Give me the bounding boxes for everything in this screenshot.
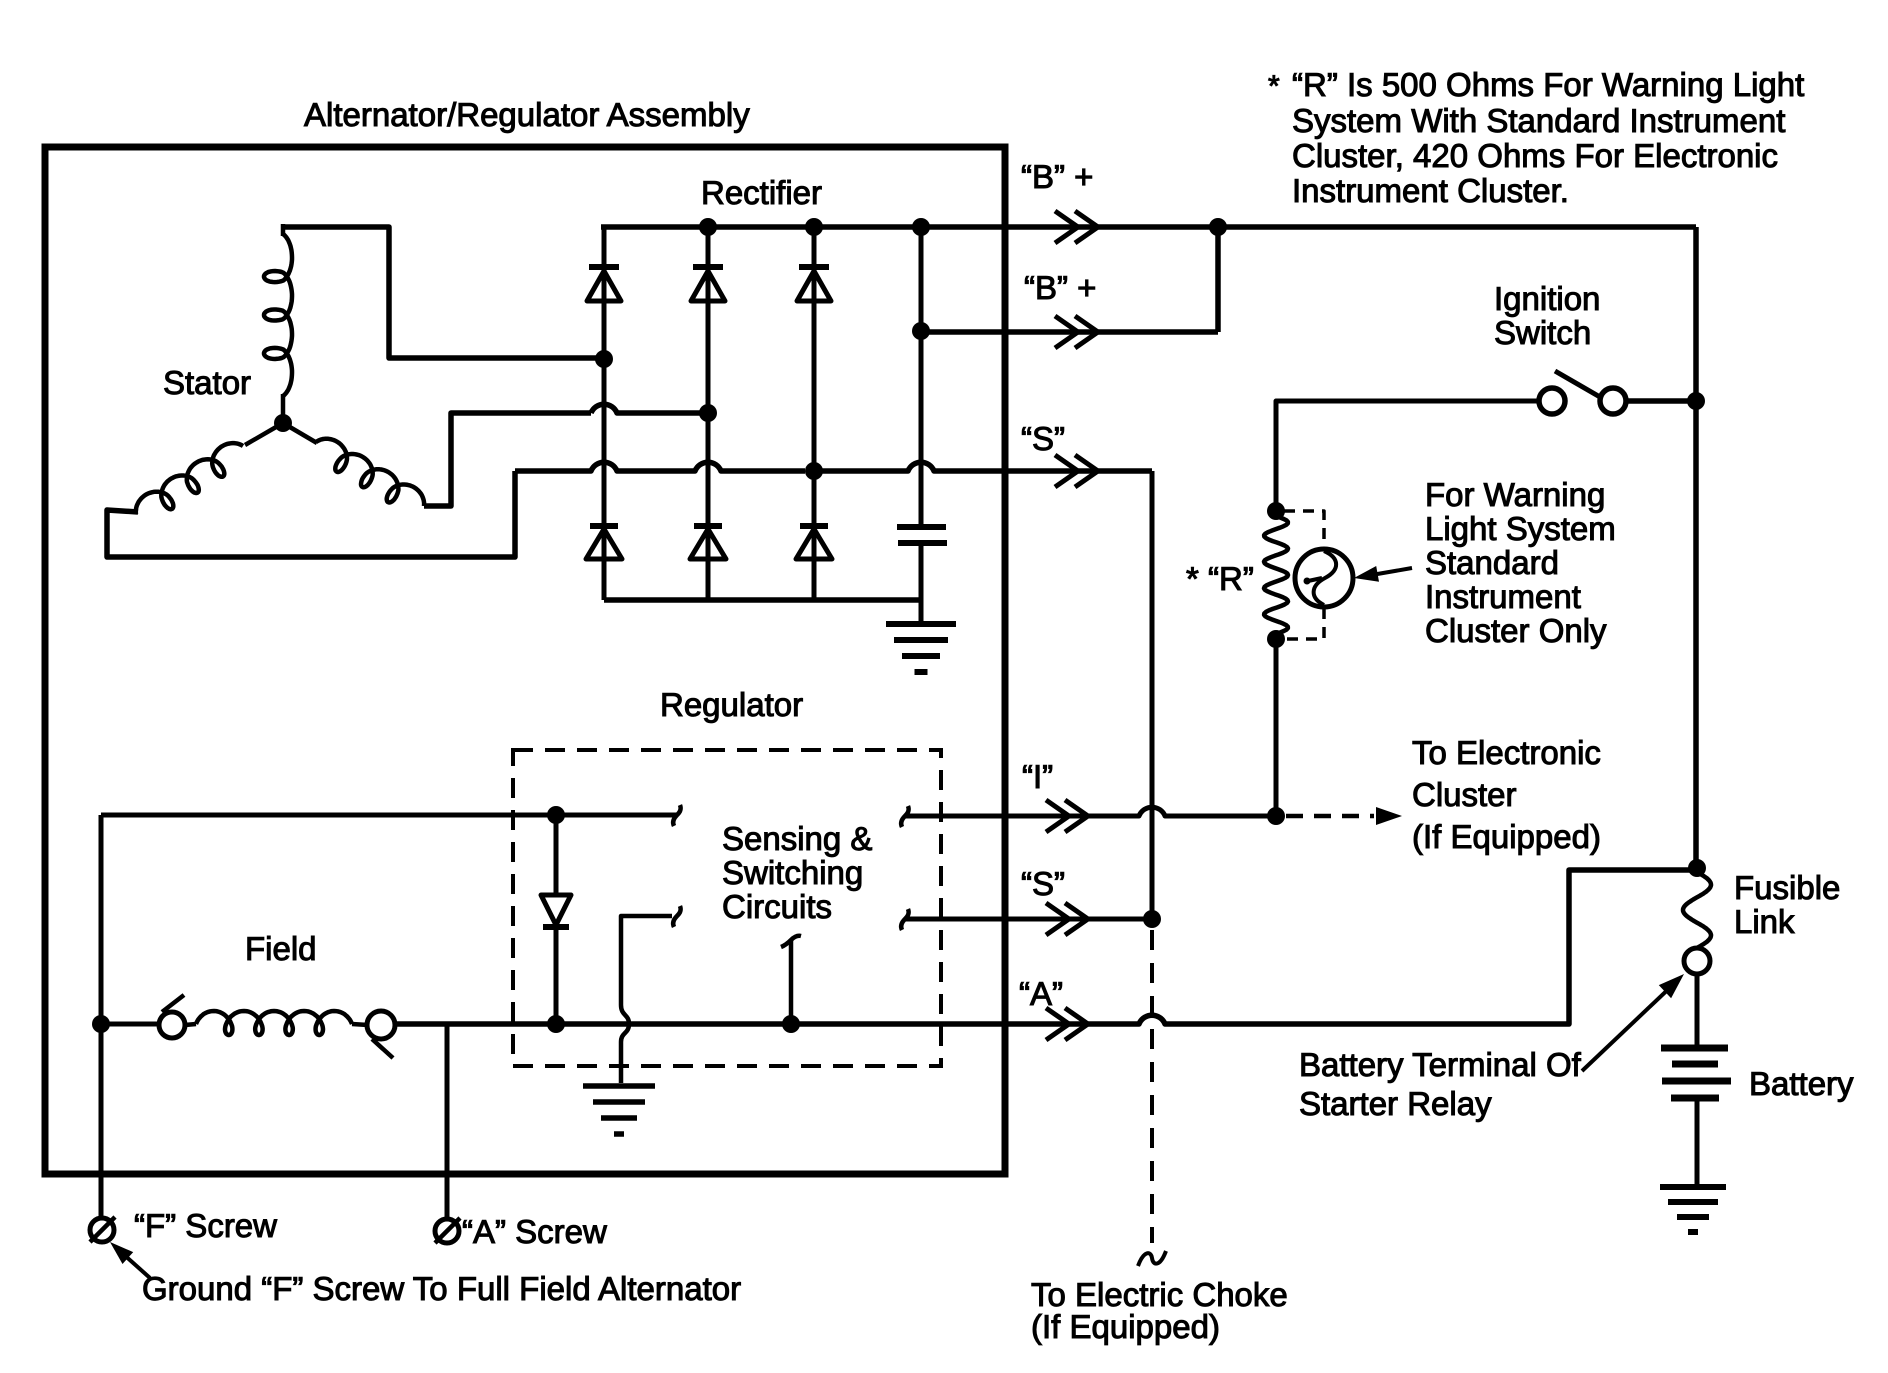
svg-text:Sensing &: Sensing & [722,820,872,857]
svg-text:Switching: Switching [722,854,863,891]
wire S with hops over diode legs [515,462,805,471]
choke wire break squiggle [1138,1251,1166,1266]
svg-text:Switch: Switch [1494,314,1591,351]
stator winding L2 (left coil) [245,423,283,445]
svg-text:Fusible: Fusible [1734,869,1840,906]
wire field to A terminal [395,1021,1005,1027]
svg-text:Cluster: Cluster [1412,776,1517,813]
svg-text:*: * [1268,70,1280,103]
svg-text:Battery: Battery [1749,1065,1854,1102]
svg-text:Field: Field [245,930,317,967]
dashed branch to warning lamp (bottom) [1284,608,1324,639]
ground (regulator) [583,1086,655,1134]
node B+ branch on capacitor leg [912,322,930,340]
node bus-leg3 [805,218,823,236]
field brush tick left [162,995,184,1012]
svg-text:“I”: “I” [1022,758,1053,795]
diode D2 (upper) [693,264,723,270]
svg-text:(If Equipped): (If Equipped) [1031,1308,1220,1345]
field brush contact right (circle) [367,1011,395,1039]
field brush contact left (circle) [159,1012,185,1038]
svg-text:“A” Screw: “A” Screw [462,1213,607,1250]
dashed wire to electric choke [1150,930,1154,1243]
diode D3 (upper) [799,264,829,270]
screw A (circle with slash) [435,1219,459,1243]
node B+ junction [1209,218,1227,236]
warning lamp filament [1314,551,1337,605]
warning lamp (circle) [1295,549,1353,607]
wire stator-mid hop over diode leg 1 [591,404,701,413]
wire F screw leg [99,815,104,1219]
node F wire to diode D7 [547,806,565,824]
wire S continues, hop over capacitor leg [814,462,1152,471]
diode D4 (lower) [590,523,618,529]
leader arrow to lamp [1360,568,1412,577]
svg-text:“B” +: “B” + [1024,269,1096,306]
ignition switch blade [1555,371,1600,397]
leader arrow to F screw [121,1252,150,1278]
node R bottom [1267,630,1285,648]
node S on diode leg 3 [805,462,823,480]
hook stub ground wire end [673,906,680,927]
wire B+ 2 riser [1215,227,1221,332]
hook stub I inside regulator [901,806,908,827]
capacitor C1 [897,524,946,530]
svg-text:Instrument: Instrument [1425,578,1581,615]
svg-text:Standard: Standard [1425,544,1559,581]
rectifier lower bus wire [604,597,921,603]
svg-text:Ground “F” Screw To Full Field: Ground “F” Screw To Full Field Alternato… [142,1270,741,1307]
svg-text:“R” Is 500 Ohms For Warning Li: “R” Is 500 Ohms For Warning Light [1292,66,1804,103]
diode D5 (lower) [694,523,722,529]
field winding coil [196,1011,352,1035]
wire I with hop over S down-leg [905,807,1276,816]
svg-text:* “R”: * “R” [1186,560,1254,597]
svg-text:Light System: Light System [1425,510,1616,547]
wire A outside box with hop over choke line [1005,870,1697,1024]
fusible link terminal (circle) [1684,948,1710,974]
terminal arrow B+ 2 [1055,316,1098,348]
regulator dashed box [513,750,941,1066]
svg-text:(If Equipped): (If Equipped) [1412,818,1601,855]
node bus-cap [912,218,930,236]
stator top lead wire [283,227,601,358]
svg-text:For Warning: For Warning [1425,476,1605,513]
svg-text:System With Standard Instrumen: System With Standard Instrument [1292,102,1785,139]
node tap stub to field wire [782,1015,800,1033]
svg-text:Circuits: Circuits [722,888,832,925]
leader arrow to battery terminal [1582,980,1678,1071]
diode D7 (regulator) [554,815,559,895]
ignition switch contact left [1539,388,1565,414]
svg-text:Cluster, 420 Ohms For Electron: Cluster, 420 Ohms For Electronic [1292,137,1778,174]
wire switch to R branch [1626,398,1696,404]
svg-text:Rectifier: Rectifier [701,174,822,211]
svg-text:“A”: “A” [1019,975,1063,1012]
svg-text:Regulator: Regulator [660,686,803,723]
node R top [1267,502,1285,520]
dashed branch to warning lamp (top) [1284,511,1324,547]
node bus-leg2 [699,218,717,236]
wire battery to ground [1695,1098,1700,1184]
wire link to battery [1695,974,1700,1045]
node stator-mid to diode leg 2 [699,404,717,422]
wire ignition feed down from B+ [1693,227,1699,868]
hook stub S inside regulator [901,909,908,930]
node switch to ignition feed [1687,392,1705,410]
node S junction to choke line [1143,910,1161,928]
node field left end [92,1015,110,1033]
svg-text:To Electronic: To Electronic [1412,734,1601,771]
capacitor C1 lead [919,227,924,527]
svg-text:Stator: Stator [163,364,251,401]
svg-text:Instrument Cluster.: Instrument Cluster. [1292,172,1569,209]
ground (rectifier) [886,624,956,672]
battery B1 [1661,1045,1728,1052]
wire A screw leg [445,1024,450,1220]
hook stub F wire end [673,805,680,826]
stator left lead wire [107,471,515,557]
ignition switch contact right [1600,388,1626,414]
resistor R [1264,516,1288,634]
wire B+ 1 to ignition feed [1005,224,1696,230]
wire F into regulator [101,813,676,818]
svg-text:“F” Screw: “F” Screw [134,1207,277,1244]
diode D6 (lower) [800,523,828,529]
diode leg 2 vertical [706,227,711,600]
svg-text:“B” +: “B” + [1021,158,1093,195]
node I junction [1267,807,1285,825]
terminal arrow S 1 [1055,455,1098,487]
terminal arrow S 2 [1046,903,1088,935]
alternator/regulator assembly box [45,147,1005,1174]
svg-text:Starter Relay: Starter Relay [1299,1085,1492,1122]
stator right lead wire [424,413,591,506]
screw F (circle with slash) [90,1218,114,1242]
stator winding L3 (right coil) [283,423,317,443]
svg-text:Cluster Only: Cluster Only [1425,612,1607,649]
ground (battery) [1660,1187,1726,1232]
wire B+ 2 from capacitor leg [921,329,1218,335]
dashed arrow to electronic cluster [1286,814,1374,819]
terminal arrow A [1046,1008,1088,1040]
diode D1 (upper) [589,264,619,270]
terminal arrow I [1046,800,1088,832]
diode leg 3 vertical [812,227,817,600]
svg-text:Alternator/Regulator Assembly: Alternator/Regulator Assembly [304,96,750,133]
node stator-top to diode leg 1 [595,350,613,368]
node fusible link top [1688,859,1706,877]
field wire to brush [101,1022,159,1027]
wire S 2 [905,917,1152,922]
stator winding L1 (top coil) [264,234,292,396]
wire R bottom to I junction [1274,639,1279,816]
svg-text:Ignition: Ignition [1494,280,1600,317]
terminal arrow B+ 1 [1055,211,1098,243]
diode leg 1 vertical [602,227,607,600]
regulator ground stub wire [621,916,672,1083]
rectifier B+ bus (top wire) [601,224,1005,230]
svg-text:“S”: “S” [1021,865,1065,902]
svg-text:Link: Link [1734,903,1795,940]
svg-text:Battery Terminal Of: Battery Terminal Of [1299,1046,1582,1083]
field brush tick right [372,1039,393,1058]
fusible link [1683,872,1711,948]
node stator neutral (Y-point) [274,414,292,432]
sensing circuits tap stub [789,941,794,1024]
wire S down-leg outside box [1150,471,1155,919]
svg-text:“S”: “S” [1021,420,1065,457]
node D7 to field wire [547,1015,565,1033]
